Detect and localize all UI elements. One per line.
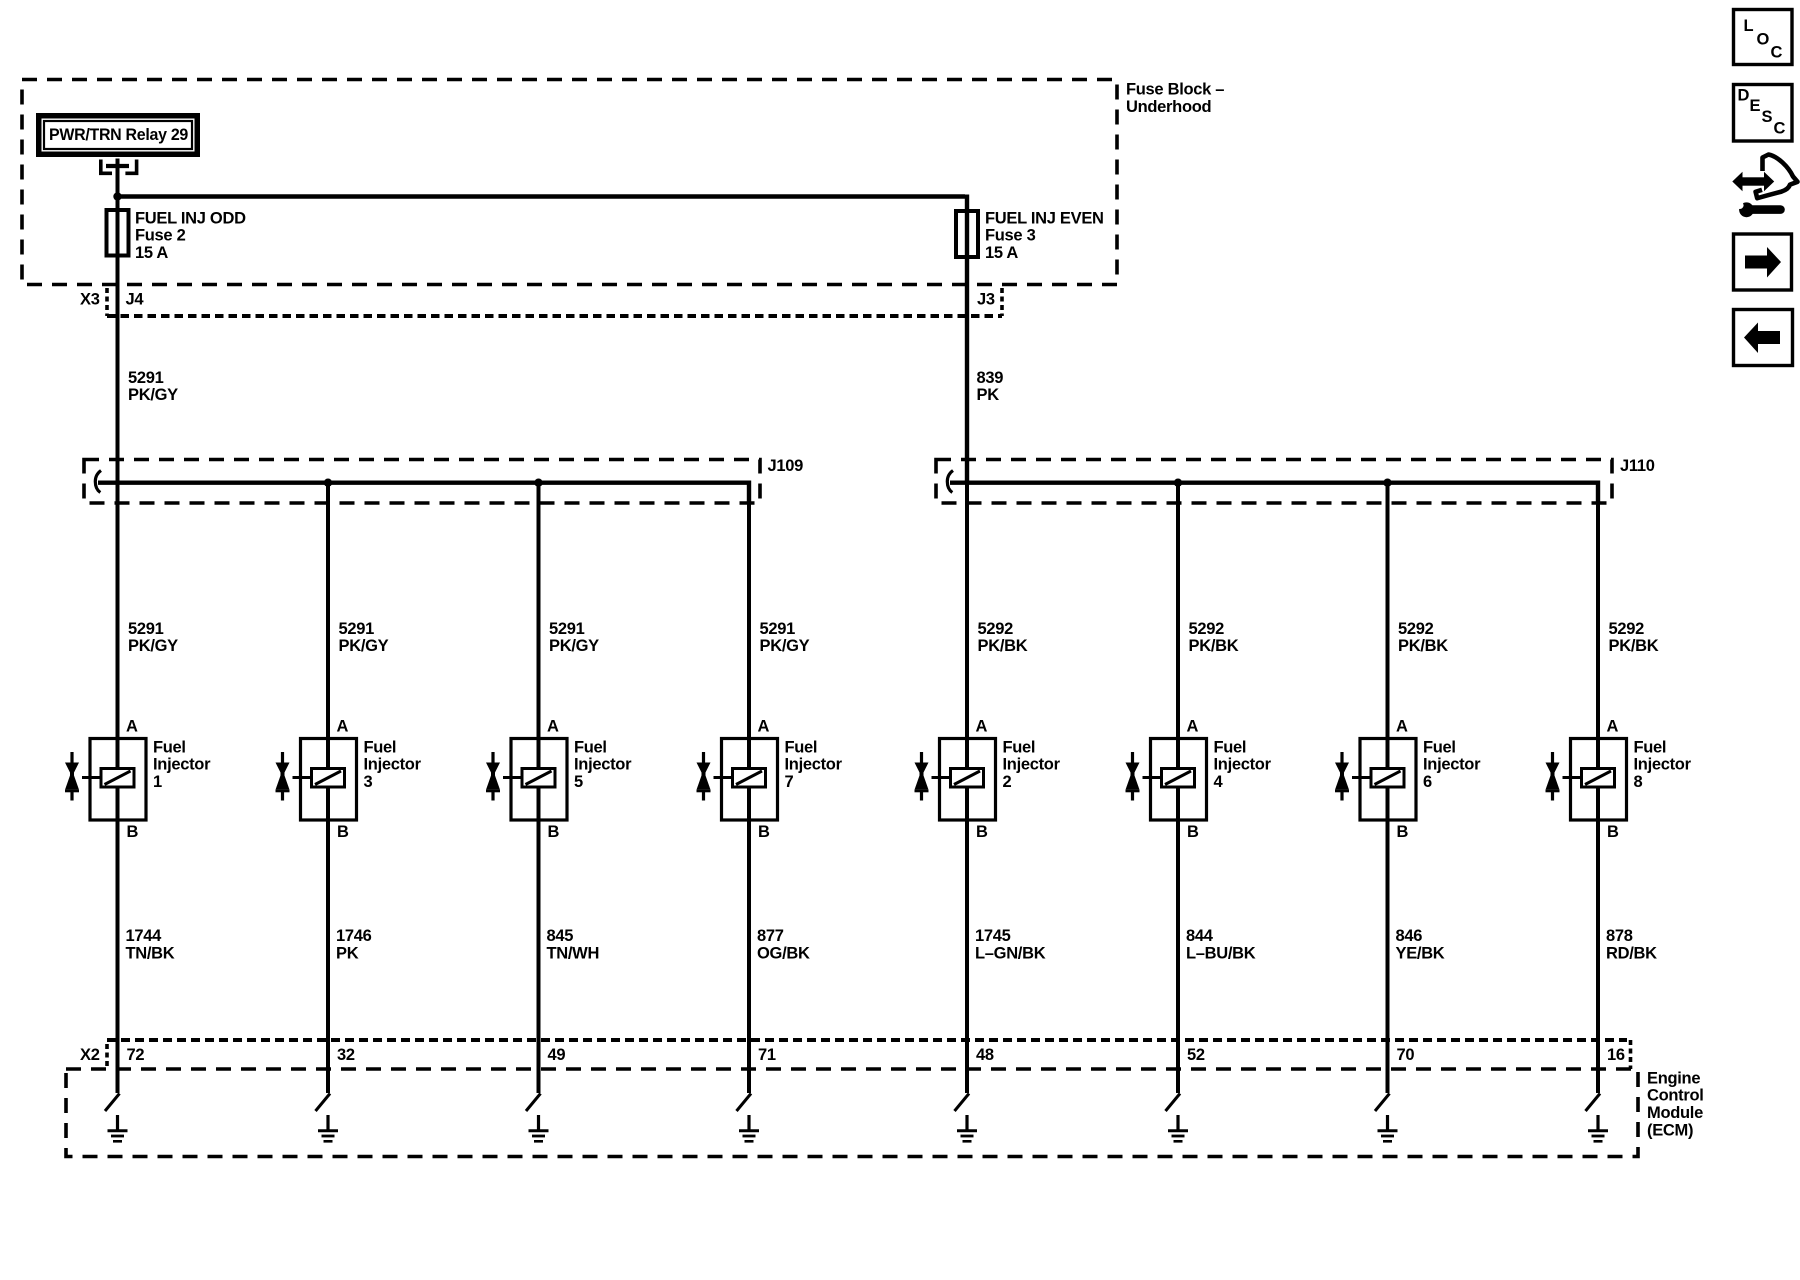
ECM driver switch for injector 1 xyxy=(105,1094,120,1112)
ECM label xyxy=(1647,1069,1704,1139)
svg-text:5: 5 xyxy=(574,773,583,791)
wire label 5292 PK/BK xyxy=(978,620,1028,655)
ECM driver switch for injector 5 xyxy=(526,1094,541,1112)
junction node at relay output xyxy=(113,192,121,200)
svg-text:Fuel: Fuel xyxy=(1003,738,1036,756)
svg-text:15 A: 15 A xyxy=(135,244,168,262)
wire segment: J bus to fuel injector 6 xyxy=(1386,483,1390,1093)
svg-text:B: B xyxy=(758,823,770,841)
splice pack J109 dashed box xyxy=(84,457,803,503)
wire label 844 L-BU/BK xyxy=(1186,927,1256,962)
wire label 1745 L-GN/BK xyxy=(975,927,1046,962)
svg-text:Injector: Injector xyxy=(1214,756,1272,774)
svg-text:877: 877 xyxy=(757,927,784,945)
ground symbol for injector 2 driver xyxy=(957,1115,977,1141)
svg-text:839: 839 xyxy=(977,369,1004,387)
svg-text:B: B xyxy=(548,823,560,841)
ECM pin 16 xyxy=(1607,1046,1625,1064)
ECM driver switch for injector 3 xyxy=(316,1094,331,1112)
svg-text:Fuel: Fuel xyxy=(574,738,607,756)
relay label box PWR/TRN Relay 29 xyxy=(36,113,200,157)
svg-text:PK/GY: PK/GY xyxy=(339,637,389,655)
svg-text:32: 32 xyxy=(337,1046,355,1064)
fuel injector 6 xyxy=(1335,717,1481,841)
svg-text:FUEL INJ ODD: FUEL INJ ODD xyxy=(135,209,246,227)
wire label 5291 PK/GY xyxy=(549,620,599,655)
ground symbol for injector 4 driver xyxy=(1168,1115,1188,1141)
svg-text:OG/BK: OG/BK xyxy=(757,944,810,962)
svg-text:RD/BK: RD/BK xyxy=(1606,944,1657,962)
ECM driver switch for injector 8 xyxy=(1586,1094,1601,1112)
svg-text:3: 3 xyxy=(364,773,373,791)
wire label 846 YE/BK xyxy=(1396,927,1445,962)
wire label 5291 PK/GY (feed) xyxy=(128,369,178,404)
svg-text:J4: J4 xyxy=(126,291,145,309)
svg-text:844: 844 xyxy=(1186,927,1214,945)
svg-text:Fuse Block –: Fuse Block – xyxy=(1126,81,1224,99)
svg-text:Injector: Injector xyxy=(1003,756,1061,774)
svg-text:48: 48 xyxy=(976,1046,994,1064)
junction dots on J110 bus xyxy=(1174,479,1392,487)
wire segment: fuel injector 4 to ECM xyxy=(1176,820,1180,1093)
svg-text:Engine: Engine xyxy=(1647,1069,1700,1087)
wire label 839 PK xyxy=(977,369,1004,404)
svg-text:E: E xyxy=(1750,97,1761,115)
svg-text:Injector: Injector xyxy=(785,756,843,774)
fuse block underhood dashed box xyxy=(22,80,1117,285)
ECM dashed box xyxy=(66,1069,1638,1157)
svg-text:49: 49 xyxy=(548,1046,566,1064)
svg-text:PK: PK xyxy=(977,386,1000,404)
svg-text:A: A xyxy=(1396,717,1408,735)
svg-text:5291: 5291 xyxy=(339,620,375,638)
svg-text:B: B xyxy=(1397,823,1409,841)
svg-text:L: L xyxy=(1744,17,1754,35)
junction dots on J109 bus xyxy=(324,479,543,487)
ground symbol for injector 8 driver xyxy=(1588,1115,1608,1141)
svg-text:Injector: Injector xyxy=(1634,756,1692,774)
svg-text:1744: 1744 xyxy=(126,927,163,945)
svg-text:S: S xyxy=(1762,108,1773,126)
sidebar prev-page arrow button xyxy=(1734,310,1793,366)
wire segment: J bus to fuel injector 5 xyxy=(537,483,541,1093)
wire label 1744 TN/BK xyxy=(126,927,175,962)
svg-text:Injector: Injector xyxy=(574,756,632,774)
svg-text:Injector: Injector xyxy=(364,756,422,774)
svg-text:Fuel: Fuel xyxy=(1423,738,1456,756)
svg-text:PK/GY: PK/GY xyxy=(128,637,178,655)
svg-text:TN/WH: TN/WH xyxy=(547,944,600,962)
svg-text:D: D xyxy=(1738,87,1750,105)
wire label 5291 PK/GY xyxy=(339,620,389,655)
ground symbol for injector 1 driver xyxy=(108,1115,128,1141)
ECM pin 70 xyxy=(1397,1046,1415,1064)
svg-text:PK/GY: PK/GY xyxy=(760,637,810,655)
svg-text:5292: 5292 xyxy=(978,620,1014,638)
fuse block label xyxy=(1126,81,1224,116)
svg-text:52: 52 xyxy=(1187,1046,1205,1064)
ECM pin 71 xyxy=(758,1046,776,1064)
svg-text:5291: 5291 xyxy=(128,369,164,387)
svg-text:J3: J3 xyxy=(977,291,995,309)
svg-text:845: 845 xyxy=(547,927,574,945)
svg-text:5291: 5291 xyxy=(760,620,796,638)
wire label 5291 PK/GY xyxy=(128,620,178,655)
svg-text:Injector: Injector xyxy=(1423,756,1481,774)
svg-text:5292: 5292 xyxy=(1189,620,1225,638)
svg-text:PK: PK xyxy=(336,944,359,962)
svg-text:Injector: Injector xyxy=(153,756,211,774)
wire segment: fuel injector 5 to ECM xyxy=(537,820,541,1093)
svg-text:16: 16 xyxy=(1607,1046,1625,1064)
wire: relay output vertical to fuse 2 and J109 xyxy=(116,159,120,483)
svg-text:A: A xyxy=(758,717,770,735)
svg-text:Fuel: Fuel xyxy=(785,738,818,756)
splice pack J109 bus bar xyxy=(95,471,749,504)
relay K contact symbol xyxy=(99,160,138,174)
wire label 878 RD/BK xyxy=(1606,927,1657,962)
splice pack J110 dashed box xyxy=(936,457,1655,503)
svg-text:7: 7 xyxy=(785,773,794,791)
svg-text:J109: J109 xyxy=(768,457,804,475)
svg-text:X2: X2 xyxy=(80,1046,100,1064)
ECM driver switch for injector 7 xyxy=(737,1094,752,1112)
ECM pin 48 xyxy=(976,1046,994,1064)
ground symbol for injector 3 driver xyxy=(318,1115,338,1141)
svg-text:71: 71 xyxy=(758,1046,776,1064)
ECM driver switch for injector 2 xyxy=(955,1094,970,1112)
svg-text:Module: Module xyxy=(1647,1104,1703,1122)
svg-text:A: A xyxy=(976,717,988,735)
wire segment: J bus to fuel injector 7 xyxy=(747,483,751,1093)
svg-text:TN/BK: TN/BK xyxy=(126,944,175,962)
svg-text:15 A: 15 A xyxy=(985,244,1018,262)
wire segment: fuel injector 3 to ECM xyxy=(326,820,330,1093)
svg-text:X3: X3 xyxy=(80,291,100,309)
svg-text:1: 1 xyxy=(153,773,162,791)
wire segment: J bus to fuel injector 3 xyxy=(326,483,330,1093)
svg-text:B: B xyxy=(1607,823,1619,841)
svg-text:PK/BK: PK/BK xyxy=(1189,637,1239,655)
ground symbol for injector 6 driver xyxy=(1378,1115,1398,1141)
svg-text:PK/BK: PK/BK xyxy=(1398,637,1448,655)
wire segment: J bus to fuel injector 2 xyxy=(965,483,969,1093)
svg-text:J110: J110 xyxy=(1620,457,1655,475)
svg-text:FUEL INJ EVEN: FUEL INJ EVEN xyxy=(985,209,1104,227)
svg-text:Fuel: Fuel xyxy=(364,738,397,756)
svg-text:Fuse 3: Fuse 3 xyxy=(985,227,1036,245)
fuel injector 2 xyxy=(915,717,1061,841)
ECM driver switch for injector 4 xyxy=(1166,1094,1181,1112)
sidebar DESC button xyxy=(1734,85,1793,142)
connector X3 / pin J4 / pin J3 row xyxy=(80,288,1002,316)
wire label 5291 PK/GY xyxy=(760,620,810,655)
svg-text:PK/GY: PK/GY xyxy=(549,637,599,655)
ECM pin 49 xyxy=(548,1046,566,1064)
wire segment: fuel injector 6 to ECM xyxy=(1386,820,1390,1093)
connector dotted line J4-J3 xyxy=(107,314,1002,318)
svg-text:C: C xyxy=(1774,119,1786,137)
wire label 877 OG/BK xyxy=(757,927,810,962)
svg-text:Control: Control xyxy=(1647,1087,1704,1105)
svg-text:846: 846 xyxy=(1396,927,1423,945)
svg-text:YE/BK: YE/BK xyxy=(1396,944,1445,962)
wire label 5292 PK/BK xyxy=(1398,620,1448,655)
wire: horizontal feed to fuse 3 xyxy=(118,195,968,483)
svg-text:L–BU/BK: L–BU/BK xyxy=(1186,944,1256,962)
ECM pin 32 xyxy=(337,1046,355,1064)
fuel injector 1 xyxy=(65,717,211,841)
ground symbol for injector 7 driver xyxy=(739,1115,759,1141)
svg-text:PK/BK: PK/BK xyxy=(978,637,1028,655)
svg-text:PK/BK: PK/BK xyxy=(1609,637,1659,655)
wire label 845 TN/WH xyxy=(547,927,600,962)
svg-text:A: A xyxy=(547,717,559,735)
fuel injector 3 xyxy=(276,717,422,841)
svg-text:A: A xyxy=(126,717,138,735)
wire label 5292 PK/BK xyxy=(1609,620,1659,655)
svg-text:PWR/TRN Relay 29: PWR/TRN Relay 29 xyxy=(49,126,188,144)
ECM connector dotted line X2 row xyxy=(107,1040,1631,1069)
svg-text:8: 8 xyxy=(1634,773,1643,791)
svg-text:B: B xyxy=(127,823,139,841)
svg-text:4: 4 xyxy=(1214,773,1224,791)
svg-text:(ECM): (ECM) xyxy=(1647,1121,1693,1139)
sidebar wiring schematic icon xyxy=(1732,155,1797,218)
svg-text:Underhood: Underhood xyxy=(1126,98,1211,116)
svg-text:5291: 5291 xyxy=(549,620,585,638)
svg-text:A: A xyxy=(337,717,349,735)
connector X2 label xyxy=(80,1044,107,1068)
ECM driver switch for injector 6 xyxy=(1375,1094,1390,1112)
svg-text:5292: 5292 xyxy=(1398,620,1434,638)
svg-text:Fuel: Fuel xyxy=(1634,738,1667,756)
fuel injector 5 xyxy=(486,717,632,841)
wire label 5292 PK/BK xyxy=(1189,620,1239,655)
wire segment: fuel injector 8 to ECM xyxy=(1596,820,1600,1093)
svg-text:72: 72 xyxy=(127,1046,145,1064)
wire label 1746 PK xyxy=(336,927,372,962)
svg-text:878: 878 xyxy=(1606,927,1633,945)
svg-text:5292: 5292 xyxy=(1609,620,1645,638)
ECM pin 72 xyxy=(127,1046,145,1064)
wire segment: fuel injector 7 to ECM xyxy=(747,820,751,1093)
svg-text:B: B xyxy=(976,823,988,841)
fuse F3 FUEL INJ EVEN 15A xyxy=(956,209,1104,262)
svg-text:O: O xyxy=(1757,31,1770,49)
svg-text:70: 70 xyxy=(1397,1046,1415,1064)
fuel injector 7 xyxy=(697,717,843,841)
fuel injector 4 xyxy=(1126,717,1272,841)
svg-text:PK/GY: PK/GY xyxy=(128,386,178,404)
svg-text:C: C xyxy=(1771,44,1783,62)
svg-text:5291: 5291 xyxy=(128,620,164,638)
svg-text:1746: 1746 xyxy=(336,927,372,945)
svg-text:L–GN/BK: L–GN/BK xyxy=(975,944,1046,962)
svg-text:Fuel: Fuel xyxy=(1214,738,1247,756)
wire segment: fuel injector 1 to ECM xyxy=(116,820,120,1093)
svg-text:2: 2 xyxy=(1003,773,1012,791)
svg-text:A: A xyxy=(1607,717,1619,735)
wire segment: J bus to fuel injector 8 xyxy=(1596,483,1600,1093)
svg-text:A: A xyxy=(1187,717,1199,735)
ground symbol for injector 5 driver xyxy=(529,1115,549,1141)
svg-text:1745: 1745 xyxy=(975,927,1011,945)
fuse F2 FUEL INJ ODD 15A xyxy=(107,209,247,262)
wire segment: J bus to fuel injector 1 xyxy=(116,483,120,1093)
splice pack J110 bus bar xyxy=(947,471,1598,504)
svg-text:6: 6 xyxy=(1423,773,1432,791)
sidebar next-page arrow button xyxy=(1734,234,1792,290)
ECM pin 52 xyxy=(1187,1046,1205,1064)
sidebar LOC button xyxy=(1734,10,1793,65)
fuel injector 8 xyxy=(1546,717,1692,841)
wire segment: J bus to fuel injector 4 xyxy=(1176,483,1180,1093)
svg-text:Fuse 2: Fuse 2 xyxy=(135,227,186,245)
svg-text:B: B xyxy=(337,823,349,841)
wire segment: fuel injector 2 to ECM xyxy=(965,820,969,1093)
svg-text:B: B xyxy=(1187,823,1199,841)
svg-text:Fuel: Fuel xyxy=(153,738,186,756)
